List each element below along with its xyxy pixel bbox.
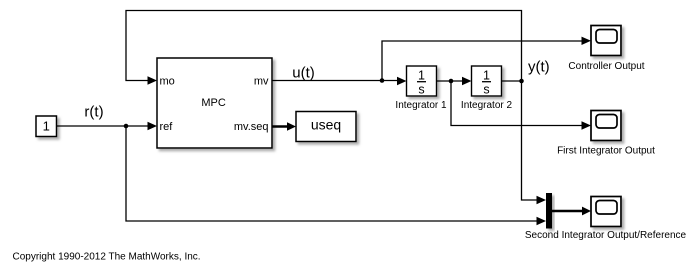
arrowhead into mux input 1 bbox=[537, 196, 547, 204]
arrowhead into mo port bbox=[148, 76, 158, 84]
mux block bbox=[546, 193, 552, 229]
svg-text:1: 1 bbox=[483, 69, 490, 83]
wire Integrator 2 to y(t) node bbox=[502, 80, 522, 82]
svg-text:MPC: MPC bbox=[201, 97, 226, 109]
thick arrowhead into Second Integrator Output scope bbox=[582, 207, 591, 216]
wire constant to ref bbox=[57, 125, 151, 127]
svg-text:1: 1 bbox=[43, 119, 50, 134]
wire u(t) from mv to Integrator 1 bbox=[272, 80, 400, 82]
arrowhead into First Integrator Output bbox=[582, 121, 592, 129]
svg-text:mv.seq: mv.seq bbox=[234, 121, 269, 133]
Integrator 2 block bbox=[472, 66, 502, 97]
svg-text:Copyright 1990-2012 The MathWo: Copyright 1990-2012 The MathWorks, Inc. bbox=[13, 252, 201, 263]
svg-text:s: s bbox=[418, 83, 424, 97]
scope Controller Output bbox=[591, 26, 621, 56]
arrowhead into Integrator 1 bbox=[397, 77, 407, 85]
scope First Integrator Output bbox=[591, 111, 621, 141]
Integrator 1 block bbox=[407, 66, 437, 97]
svg-text:mv: mv bbox=[254, 76, 269, 88]
svg-text:Controller Output: Controller Output bbox=[568, 61, 644, 72]
svg-text:Integrator 2: Integrator 2 bbox=[461, 100, 513, 111]
arrowhead into Integrator 2 bbox=[462, 77, 472, 85]
arrowhead into mux input 2 bbox=[537, 217, 547, 225]
arrowhead into ref port bbox=[148, 122, 158, 130]
junction node u(t) bbox=[380, 78, 385, 83]
svg-text:u(t): u(t) bbox=[292, 65, 315, 82]
wire branch to First Integrator Output scope bbox=[451, 81, 584, 126]
wire feedback loop y(t) to mo (top) bbox=[126, 11, 522, 81]
useq block bbox=[296, 112, 356, 142]
thick wire mux to scope bbox=[552, 210, 584, 213]
thick wire mv.seq to useq bbox=[272, 125, 289, 127]
svg-text:y(t): y(t) bbox=[528, 59, 550, 76]
svg-text:mo: mo bbox=[160, 76, 175, 88]
svg-text:s: s bbox=[483, 83, 489, 97]
junction node r(t) bbox=[124, 124, 129, 129]
scope Second Integrator Output/Reference bbox=[591, 197, 621, 227]
svg-text:First Integrator Output: First Integrator Output bbox=[557, 146, 655, 157]
junction node y(t) bbox=[519, 79, 524, 84]
wire Integrator 1 to Integrator 2 bbox=[437, 80, 466, 82]
junction node after Integrator 1 bbox=[449, 79, 454, 84]
thick arrowhead into useq bbox=[287, 122, 296, 131]
arrowhead into Controller Output bbox=[582, 37, 592, 45]
MPC controller block bbox=[157, 58, 272, 148]
svg-text:ref: ref bbox=[160, 121, 174, 133]
svg-text:r(t): r(t) bbox=[84, 104, 103, 121]
wire r(t) branch down to mux bbox=[126, 126, 539, 221]
svg-text:Integrator 1: Integrator 1 bbox=[395, 100, 447, 111]
constant block 1 bbox=[36, 116, 57, 137]
svg-text:useq: useq bbox=[311, 117, 341, 133]
wire y(t) down to mux input 1 bbox=[522, 81, 540, 200]
svg-text:Second Integrator Output/Refer: Second Integrator Output/Reference bbox=[525, 230, 687, 241]
svg-text:1: 1 bbox=[418, 69, 425, 83]
wire branch to Controller Output scope bbox=[382, 41, 584, 81]
